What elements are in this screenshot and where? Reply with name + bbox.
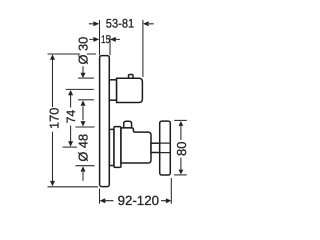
svg-text:Ø 30: Ø 30 — [76, 37, 91, 65]
svg-text:53-81: 53-81 — [106, 17, 134, 31]
svg-text:80: 80 — [174, 142, 189, 156]
svg-text:15: 15 — [101, 34, 110, 46]
svg-text:170: 170 — [47, 108, 62, 129]
svg-text:92-120: 92-120 — [118, 193, 159, 208]
svg-text:Ø 48: Ø 48 — [76, 134, 91, 162]
svg-text:74: 74 — [64, 110, 78, 124]
